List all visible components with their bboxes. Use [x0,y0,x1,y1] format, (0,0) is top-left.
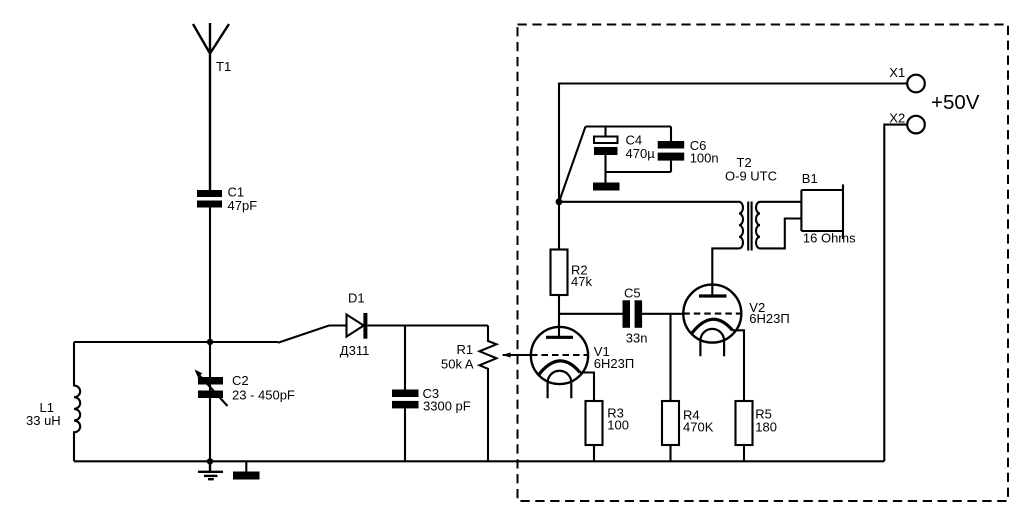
potentiometer R1 [480,326,531,462]
svg-text:100: 100 [607,417,629,432]
svg-text:33 uH: 33 uH [26,413,61,428]
label R5 180 [755,406,777,434]
wire T2 primary to V2 plate [712,248,739,296]
label V2 6Н23П [749,300,789,326]
wire T2 secondary top to B1 [760,201,801,203]
svg-text:Д311: Д311 [340,343,370,358]
label B1 16 Ohms [802,171,856,246]
label R3 100 [607,405,629,432]
label C4 470µ [626,132,656,161]
wire bottom bus [74,460,884,462]
svg-text:6Н23П: 6Н23П [749,311,789,326]
wire node to R2 [558,202,560,250]
svg-text:3300 pF: 3300 pF [423,399,471,414]
capacitor C1 [197,190,222,208]
wire tank top [74,341,278,343]
wire V2 cathode to R5 [733,330,745,401]
svg-text:23 - 450pF: 23 - 450pF [232,387,295,402]
svg-text:O-9 UTC: O-9 UTC [725,168,777,183]
ground [198,461,223,479]
svg-text:180: 180 [755,420,777,435]
label C5 33n [624,286,648,346]
label C1 47pF [228,185,258,214]
svg-text:B1: B1 [802,171,818,186]
node supply junction [556,198,563,205]
svg-text:47pF: 47pF [228,198,258,213]
terminal X1 [907,75,925,93]
svg-text:50k A: 50k A [441,356,474,371]
svg-text:470µ: 470µ [626,146,656,161]
wire T2 secondary bottom to B1 [760,219,801,249]
label C3 3300 pF [423,386,471,414]
svg-text:T1: T1 [216,59,231,74]
inductor L1 [74,342,80,461]
svg-text:R1: R1 [457,342,474,357]
wire diode to R1 [367,324,488,326]
capacitor C6 [658,127,685,173]
svg-text:C2: C2 [232,373,249,388]
wire R5 to bus [743,445,745,461]
svg-text:33n: 33n [626,331,648,346]
capacitor C4 [594,127,618,183]
node tank top junction [207,339,213,345]
label T2 O-9 UTC [725,155,777,184]
label C2 23 - 450pF [232,373,295,402]
transformer T2 [739,202,760,251]
svg-text:+50V: +50V [931,91,980,114]
wire V1 cathode to R3 [580,373,594,402]
wire tank left to bus [209,342,211,461]
label C6 100n [690,138,719,166]
speaker B1 [801,184,843,239]
dashed enclosure [518,25,1009,502]
svg-text:X1: X1 [889,65,905,80]
chassis ground bar C4 [593,183,620,191]
svg-text:47k: 47k [571,274,592,289]
svg-text:16 Ohms: 16 Ohms [803,231,856,246]
wire to R4 [669,314,671,401]
wire cap top rail [586,125,672,127]
resistor R5 [736,401,753,445]
wire C5 to V2 grid [642,313,683,315]
node tank bottom junction [207,458,213,464]
wire node to T2 primary [559,201,739,203]
wire X2 return [884,125,907,462]
capacitor C2 variable [195,370,228,407]
wire R4 to bus [669,445,671,461]
svg-text:D1: D1 [348,291,365,306]
wire diagonal to C4 [560,127,586,201]
wire to C5 [559,313,623,315]
svg-text:6Н23П: 6Н23П [594,356,634,371]
wire X1 to supply node [559,84,907,202]
svg-text:100n: 100n [690,151,719,166]
antenna T1 [193,23,229,190]
label R4 470K [683,408,714,435]
resistor R3 [586,401,603,445]
wire R3 to bus [593,445,595,461]
tube V2 [683,285,741,357]
resistor R2 [551,250,568,296]
label D1 Д311 [340,291,370,358]
terminal X2 [907,116,925,134]
capacitor C3 [392,326,419,462]
capacitor C5 [623,300,643,328]
diode D1 [347,313,368,339]
wire cap bottom rail [606,171,672,173]
label R2 47k [571,262,592,289]
wire diagonal to diode [278,326,347,343]
svg-text:470K: 470K [683,420,714,435]
wire antenna to tank [209,208,211,343]
resistor R4 [662,401,679,445]
svg-text:X2: X2 [889,111,905,126]
label L1 33 uH [26,400,61,428]
label V1 6Н23П [594,344,634,371]
chassis ground bar [233,461,260,479]
svg-text:C5: C5 [624,286,641,301]
label R1 50k A [441,342,474,371]
wire R2 to V1 plate [558,295,560,337]
tube V1 [531,327,588,398]
